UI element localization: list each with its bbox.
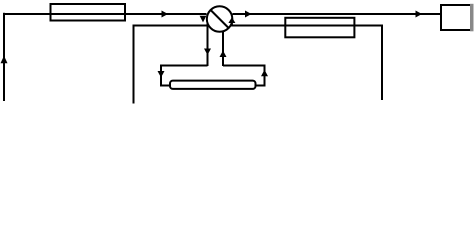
wire: bypass left vertical to bottom (133, 25, 135, 104)
wire: mixer bottom-left downcomer (207, 22, 209, 66)
arrow: down arrow on mixer downcomer (204, 49, 211, 56)
wire: lower bypass line (134, 25, 383, 27)
wire: bottom loop right horizontal (223, 65, 265, 67)
arrow: right arrow before mixer (162, 11, 169, 18)
arrow: down arrow into bypass at mixer left (200, 16, 207, 23)
wire: left recycle vertical (3, 13, 5, 101)
heat exchanger E1 (rect with line through) (51, 4, 126, 21)
diagonal of mixer (211, 10, 229, 28)
arrow: up arrow on left vertical (1, 56, 8, 64)
arrow: right arrow after mixer (245, 11, 252, 18)
arrow: up arrow on condenser riser (261, 70, 268, 77)
product box (right edge cropped grey) (441, 5, 471, 30)
wire: mixer bottom-right riser (222, 28, 224, 66)
wire: drop into condenser left end (161, 65, 170, 86)
wire: main feed line top (4, 13, 440, 15)
arrow: up arrow on mixer riser (220, 51, 227, 58)
condenser tube (capsule) (170, 81, 256, 89)
arrow: down arrow on condenser drop (158, 71, 165, 78)
wire: bottom loop left horizontal (161, 65, 208, 67)
mixer / separator circle with diagonal (207, 6, 233, 32)
wire: riser from condenser right end (256, 65, 265, 86)
arrow: right arrow before product box (416, 11, 423, 18)
heat exchanger E2 (rect with line through) (285, 18, 354, 38)
wire: right vertical from bypass line to bottom (381, 25, 383, 101)
product box grey right edge (470, 4, 474, 32)
arrow: up arrow into mixer at lower right + stub (231, 23, 233, 26)
